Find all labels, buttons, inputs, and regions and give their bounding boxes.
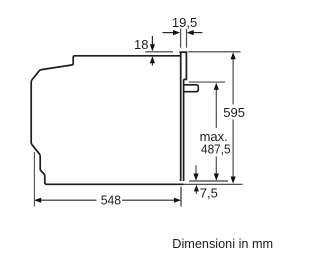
top-right reference line for 595 <box>188 51 240 53</box>
dim 18 down arrow <box>151 36 153 47</box>
dim 19,5 dimension line <box>162 32 174 34</box>
dim 595 vertical line <box>232 58 234 178</box>
door front: outer face above step <box>184 52 187 79</box>
dim 18 reference line (door-top level) <box>145 51 173 53</box>
dim 18 up arrow <box>151 60 153 65</box>
door front: top edge <box>179 51 187 53</box>
dim 548 extension line right <box>180 187 182 207</box>
svg-text:Dimensioni in mm: Dimensioni in mm <box>172 237 273 251</box>
dim 548 dimension line <box>41 199 175 201</box>
dim 7,5 down arrow <box>195 165 197 176</box>
door front: inner face below step <box>183 79 185 181</box>
oven bottom reference extension to the right <box>184 183 243 185</box>
door handle <box>184 85 199 92</box>
oven body outline <box>31 56 183 185</box>
door bottom reference line <box>189 180 228 182</box>
dim 548 extension line left <box>33 152 35 207</box>
svg-text:19,5: 19,5 <box>172 15 197 30</box>
svg-text:487,5: 487,5 <box>201 141 231 156</box>
svg-text:18: 18 <box>134 37 148 52</box>
label 548 <box>98 194 122 206</box>
svg-text:548: 548 <box>101 193 121 208</box>
reference line for max 487,5 (handle step level) <box>189 81 225 83</box>
svg-text:595: 595 <box>223 105 245 120</box>
dim 7,5 up arrow <box>195 190 197 194</box>
dim 19,5 extension lines <box>181 29 187 48</box>
svg-text:7,5: 7,5 <box>200 185 218 200</box>
door front: left edge <box>180 52 182 182</box>
dim max 487,5 vertical line <box>215 89 217 177</box>
